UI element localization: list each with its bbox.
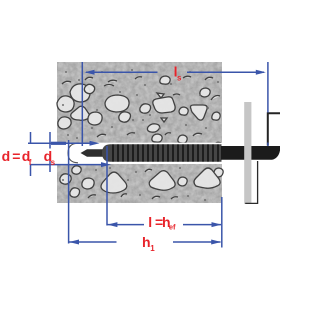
extension line left of l_s bbox=[81, 62, 83, 146]
plate side edge bbox=[245, 161, 257, 203]
plug body bbox=[102, 144, 222, 162]
label d_s bbox=[44, 148, 56, 167]
svg-text:=: = bbox=[12, 148, 20, 164]
small dark speckles bbox=[62, 69, 219, 201]
l_s dimension line bbox=[86, 71, 158, 73]
screw tip bbox=[81, 149, 104, 157]
label l_s bbox=[174, 64, 182, 83]
h_ef dimension line bbox=[107, 224, 144, 226]
extension line right of l_s bbox=[267, 62, 269, 113]
hole depth extension bbox=[68, 140, 70, 244]
d extension top bbox=[28, 142, 97, 144]
hole bottom cap bbox=[68, 143, 78, 163]
l_s left arrow bbox=[85, 70, 95, 75]
h1 left arrow bbox=[69, 240, 79, 245]
screw shaft and head bbox=[221, 146, 280, 160]
drill hole (white bore) bbox=[57, 143, 222, 164]
label d = d_f bbox=[2, 148, 32, 167]
svg-text:s: s bbox=[51, 158, 56, 167]
wall surface extension bbox=[221, 197, 223, 248]
svg-text:l: l bbox=[148, 214, 152, 230]
svg-text:s: s bbox=[177, 74, 182, 83]
label h_1 bbox=[142, 234, 155, 253]
d top arrow bbox=[90, 141, 100, 146]
blue arrowheads bbox=[69, 70, 266, 245]
blue dimension drawing bbox=[28, 62, 268, 248]
svg-text:h: h bbox=[142, 234, 151, 250]
h_ef right arrow bbox=[212, 222, 222, 227]
h1 right arrow bbox=[211, 240, 221, 245]
svg-text:ef: ef bbox=[169, 223, 176, 232]
svg-text:d: d bbox=[2, 148, 11, 164]
svg-text:1: 1 bbox=[150, 244, 155, 253]
l_s right arrow bbox=[256, 70, 266, 75]
fixture plate bbox=[244, 102, 251, 204]
h1 dimension line bbox=[69, 241, 117, 243]
label l = h_ef bbox=[148, 214, 176, 232]
d extension bottom bbox=[30, 164, 106, 166]
d bottom arrow bbox=[101, 162, 111, 167]
plug depth extension bbox=[106, 146, 108, 226]
aggregate blobs bbox=[57, 76, 223, 199]
concrete block base bbox=[57, 62, 222, 203]
h_ef left arrow bbox=[107, 222, 117, 227]
d=df dimension ticks bbox=[30, 132, 32, 143]
svg-text:f: f bbox=[29, 158, 32, 167]
screw head outline bbox=[268, 113, 280, 145]
ds dimension ticks bbox=[49, 132, 51, 149]
